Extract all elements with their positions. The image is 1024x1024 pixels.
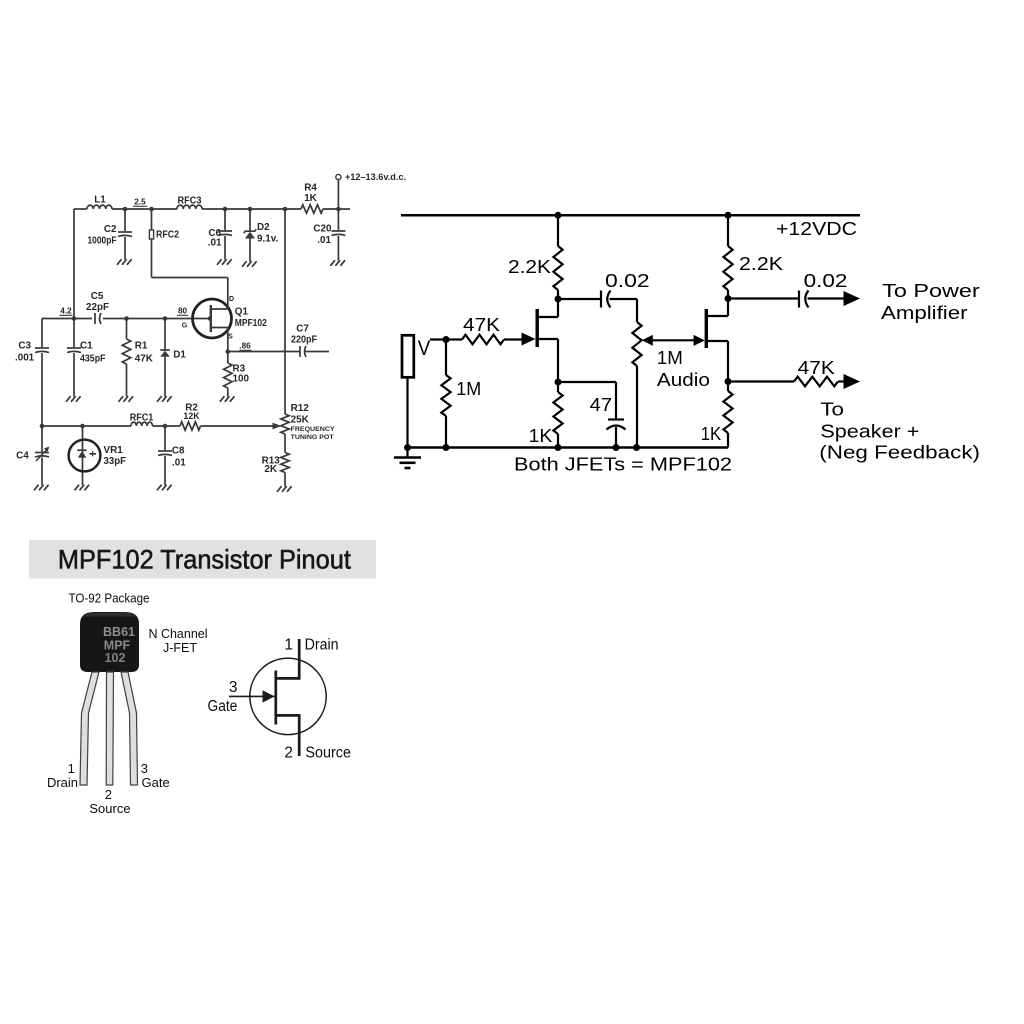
- svg-text:1M: 1M: [456, 379, 481, 399]
- ground under C2: [117, 258, 132, 265]
- resistor 2.2K right: [723, 215, 732, 299]
- JFET symbol gate lead: [229, 690, 275, 702]
- label 47K input: [463, 315, 500, 335]
- svg-text:J-FET: J-FET: [163, 641, 197, 655]
- ground under VR1: [75, 484, 90, 491]
- svg-text:.01: .01: [172, 457, 186, 468]
- svg-text:100: 100: [233, 374, 250, 385]
- wire C3 vertical: [41, 319, 43, 427]
- svg-text:2: 2: [284, 745, 293, 762]
- JFET symbol circle: [250, 658, 326, 734]
- ground under C1: [66, 395, 81, 402]
- svg-text:RFC1: RFC1: [130, 413, 154, 424]
- wire source row: [228, 351, 329, 353]
- node C8 junction: [163, 424, 168, 429]
- transistor JFET1: [537, 299, 558, 382]
- svg-text:22pF: 22pF: [86, 302, 109, 313]
- capacitor 47: [607, 420, 626, 448]
- label test voltage 4.2: [60, 307, 73, 316]
- potentiometer 1M audio: [632, 322, 641, 448]
- terminal +12V supply: [336, 172, 406, 209]
- node drain1 junction: [555, 296, 562, 303]
- svg-text:47: 47: [590, 395, 612, 415]
- node D2 junction: [248, 207, 253, 212]
- header band: [29, 540, 376, 579]
- node RFC2 junction: [149, 207, 154, 212]
- label V: [418, 337, 431, 360]
- svg-text:Audio: Audio: [657, 370, 710, 390]
- svg-text:2.5: 2.5: [134, 198, 146, 207]
- node R1 junction: [124, 316, 129, 321]
- svg-text:0.02: 0.02: [605, 271, 650, 291]
- svg-text:+12–13.6v.d.c.: +12–13.6v.d.c.: [345, 172, 406, 182]
- arrow to power amplifier: [844, 291, 861, 306]
- ground symbol: [394, 448, 421, 469]
- svg-text:+12VDC: +12VDC: [776, 219, 857, 239]
- node gnd junction 1M: [443, 444, 450, 451]
- label pin3 gate: [141, 761, 170, 790]
- svg-text:12K: 12K: [183, 411, 200, 421]
- varactor VR1: [69, 426, 126, 484]
- svg-text:2.2K: 2.2K: [739, 254, 783, 274]
- svg-text:1000pF: 1000pF: [88, 236, 117, 247]
- label pin1 drain: [47, 761, 78, 790]
- label To Power Amplifier: [881, 281, 980, 323]
- TO-92 leg 2 source: [106, 672, 113, 785]
- svg-text:Gate: Gate: [142, 775, 170, 790]
- svg-text:RFC3: RFC3: [178, 196, 202, 207]
- node gnd junction 1K left: [555, 444, 562, 451]
- label 2.2K right: [739, 254, 783, 274]
- capacitor C2: [88, 209, 133, 258]
- svg-text:47K: 47K: [798, 358, 835, 378]
- label 0.02 interstage: [605, 271, 650, 291]
- label To Speaker: [819, 400, 980, 463]
- wire left vertical: [73, 209, 75, 319]
- wire rail to R12: [284, 209, 286, 414]
- svg-text:TUNING POT: TUNING POT: [291, 434, 335, 441]
- svg-text:435pF: 435pF: [80, 354, 106, 365]
- svg-text:(Neg Feedback): (Neg Feedback): [819, 443, 980, 463]
- pot wiper arrow left: [642, 335, 653, 346]
- ground under R1: [119, 395, 134, 402]
- wire bottom row: [42, 425, 274, 427]
- svg-text:Source: Source: [89, 801, 130, 816]
- svg-text:C8: C8: [172, 446, 185, 457]
- node D1 junction: [163, 316, 168, 321]
- svg-text:1K: 1K: [304, 193, 317, 204]
- node source1 junction: [555, 379, 562, 386]
- inductor RFC3: [177, 196, 202, 210]
- label 2 Source: [284, 745, 351, 762]
- svg-text:4.2: 4.2: [60, 307, 72, 316]
- JFET symbol drain lead: [276, 639, 299, 680]
- ground under R3: [220, 395, 235, 402]
- label TO-92 Package: [69, 592, 150, 606]
- node gnd junction cap47: [613, 444, 620, 451]
- svg-text:9.1v.: 9.1v.: [257, 234, 278, 245]
- svg-text:3: 3: [229, 679, 238, 696]
- capacitor C7: [291, 324, 317, 358]
- inductor RFC1: [130, 413, 154, 426]
- ground under C20: [330, 259, 345, 266]
- potentiometer R12: [281, 403, 335, 441]
- svg-text:Both JFETs = MPF102: Both JFETs = MPF102: [514, 455, 732, 475]
- node source2 junction: [725, 378, 732, 385]
- svg-text:1K: 1K: [529, 426, 553, 446]
- ground under D2: [242, 260, 257, 267]
- svg-text:Amplifier: Amplifier: [881, 303, 968, 323]
- ground under C4: [34, 484, 49, 491]
- svg-text:.86: .86: [239, 342, 251, 351]
- resistor R1: [122, 319, 153, 396]
- svg-text:1: 1: [68, 761, 75, 776]
- capacitor C3: [15, 341, 49, 364]
- capacitor C5: [86, 291, 109, 324]
- wire source2 to 47K out: [728, 380, 794, 382]
- capacitor C1: [67, 319, 106, 396]
- svg-text:25K: 25K: [291, 415, 310, 426]
- svg-text:D2: D2: [257, 222, 270, 233]
- svg-text:1: 1: [284, 637, 293, 654]
- capacitor C20: [313, 209, 345, 259]
- svg-text:N Channel: N Channel: [148, 627, 207, 641]
- svg-text:47K: 47K: [135, 354, 154, 365]
- resistor 47K input: [462, 335, 523, 345]
- svg-text:BB61: BB61: [103, 625, 135, 639]
- svg-text:RFC2: RFC2: [156, 230, 179, 241]
- node gnd junction input: [404, 444, 411, 451]
- wire drain2 to output cap: [728, 297, 799, 299]
- ground under D1: [157, 395, 172, 402]
- svg-text:C5: C5: [91, 291, 104, 302]
- svg-text:Gate: Gate: [208, 698, 238, 715]
- resistor R2: [180, 403, 201, 431]
- label N Channel J-FET: [148, 627, 207, 655]
- capacitor C8: [158, 426, 186, 484]
- diode D1: [160, 319, 186, 396]
- resistor R3: [224, 352, 250, 396]
- svg-text:FREQUENCY: FREQUENCY: [291, 426, 335, 433]
- label 1M input: [456, 379, 481, 399]
- svg-text:Speaker +: Speaker +: [820, 422, 919, 442]
- svg-text:VR1: VR1: [104, 445, 124, 456]
- label 0.02 output: [804, 271, 848, 291]
- inductor L1: [87, 195, 112, 210]
- svg-text:2K: 2K: [264, 464, 277, 475]
- node right vertical junction: [283, 207, 288, 212]
- svg-text:C4: C4: [16, 450, 29, 461]
- svg-text:33pF: 33pF: [104, 456, 127, 467]
- resistor 47K output: [794, 377, 844, 387]
- svg-text:C2: C2: [104, 224, 117, 235]
- node C1 junction gate row: [72, 316, 77, 321]
- capacitor C4 variable: [16, 426, 49, 484]
- label 2.2K left: [508, 257, 551, 277]
- capacitor 0.02 interstage: [601, 291, 611, 308]
- node Q1 source junction: [226, 349, 231, 354]
- node C20 junction: [336, 207, 341, 212]
- label pin2 source: [89, 787, 130, 816]
- svg-text:.01: .01: [317, 235, 331, 246]
- title MPF102 Transistor Pinout: [58, 545, 352, 575]
- resistor 2.2K left: [553, 215, 562, 299]
- wire drain1 to cap: [558, 298, 601, 300]
- svg-text:80: 80: [178, 307, 188, 316]
- capacitor 0.02 output: [799, 291, 809, 308]
- svg-text:G: G: [182, 323, 188, 330]
- svg-text:0.02: 0.02: [804, 271, 848, 291]
- svg-text:D1: D1: [173, 350, 186, 361]
- JFET symbol channel bar: [274, 671, 277, 725]
- svg-text:3: 3: [141, 761, 148, 776]
- diode D2 zener 9.1v: [244, 209, 279, 260]
- TO-92 package body: [80, 612, 139, 672]
- label 1 Drain: [284, 637, 338, 654]
- label 47: [590, 395, 612, 415]
- svg-text:47K: 47K: [463, 315, 500, 335]
- gate1 arrow: [522, 333, 536, 346]
- node drain2 junction: [725, 295, 732, 302]
- wire wiper to gate2: [652, 339, 696, 341]
- node input junction: [443, 336, 450, 343]
- svg-text:L1: L1: [94, 195, 106, 206]
- svg-text:To Power: To Power: [882, 281, 980, 301]
- label test voltage .86: [239, 342, 251, 351]
- resistor 1K right: [723, 382, 732, 448]
- potentiometer R12 wiper arrow: [273, 423, 282, 430]
- svg-text:102: 102: [105, 651, 126, 665]
- wire ground rail: [408, 446, 729, 449]
- label test voltage 2.5: [133, 198, 147, 207]
- ground under R13: [277, 485, 292, 492]
- wire output cap to arrow: [808, 297, 845, 299]
- capacitor C6: [208, 209, 232, 258]
- wire input to 47K: [430, 338, 462, 340]
- transistor Q1 MPF102: [193, 296, 268, 352]
- node L1/C2 junction: [123, 207, 128, 212]
- wire top +12V rail: [74, 208, 350, 210]
- svg-text:Q1: Q1: [235, 307, 249, 318]
- svg-text:C20: C20: [313, 224, 332, 235]
- transistor JFET2: [706, 299, 728, 382]
- node rail junction left: [555, 212, 562, 219]
- svg-text:R12: R12: [291, 403, 310, 414]
- label 3 Gate: [208, 679, 238, 715]
- svg-text:MPF102 Transistor Pinout: MPF102 Transistor Pinout: [58, 545, 352, 575]
- svg-text:220pF: 220pF: [291, 335, 317, 346]
- svg-text:C1: C1: [80, 341, 93, 352]
- wire +12VDC rail: [401, 214, 860, 217]
- ground under C8: [157, 484, 172, 491]
- label 1K left: [529, 426, 553, 446]
- svg-text:1K: 1K: [701, 424, 722, 444]
- input transducer V: [402, 335, 414, 447]
- svg-text:R4: R4: [304, 183, 317, 194]
- svg-text:Drain: Drain: [47, 775, 78, 790]
- node C4 junction: [40, 424, 45, 429]
- label test voltage 80 and G: [177, 307, 188, 330]
- ground under C6: [217, 258, 232, 265]
- svg-text:C7: C7: [296, 324, 309, 335]
- wire RFC2 to Q1 drain: [152, 278, 228, 306]
- svg-text:To: To: [820, 400, 844, 420]
- svg-text:S: S: [228, 334, 233, 341]
- node rail junction right: [725, 212, 732, 219]
- svg-text:R1: R1: [135, 341, 148, 352]
- svg-text:C3: C3: [18, 341, 31, 352]
- resistor 1M input: [441, 340, 450, 448]
- label 47K output: [798, 358, 835, 378]
- svg-text:1M: 1M: [657, 348, 683, 368]
- svg-text:D: D: [229, 296, 234, 303]
- svg-text:Source: Source: [305, 745, 351, 762]
- svg-text:.01: .01: [208, 238, 222, 249]
- wire gate row: [42, 318, 209, 320]
- inductor RFC2: [149, 209, 179, 278]
- TO-92 leg 3 gate: [121, 672, 138, 785]
- resistor R4: [301, 183, 323, 214]
- gate2 arrow: [694, 335, 705, 346]
- wire cap to pot top: [610, 299, 638, 322]
- svg-text:.001: .001: [15, 353, 35, 364]
- svg-text:2: 2: [105, 787, 112, 802]
- arrow to speaker: [844, 374, 861, 389]
- label Both JFETs = MPF102: [514, 455, 732, 475]
- svg-text:V: V: [418, 337, 431, 360]
- svg-text:Drain: Drain: [305, 637, 339, 654]
- JFET symbol source lead: [276, 714, 299, 756]
- node gnd junction pot: [633, 444, 640, 451]
- label 1K right: [701, 424, 722, 444]
- TO-92 leg 1 drain: [80, 672, 99, 785]
- svg-text:TO-92 Package: TO-92 Package: [69, 592, 150, 606]
- wire source1 to cap47: [558, 382, 616, 420]
- label 1M Audio: [657, 348, 710, 390]
- node VR1 junction: [80, 424, 85, 429]
- resistor 1K left: [553, 382, 562, 448]
- svg-text:2.2K: 2.2K: [508, 257, 551, 277]
- label +12VDC: [776, 219, 857, 239]
- resistor R13: [262, 434, 290, 485]
- svg-text:MPF102: MPF102: [235, 318, 267, 329]
- node C6 junction: [223, 207, 228, 212]
